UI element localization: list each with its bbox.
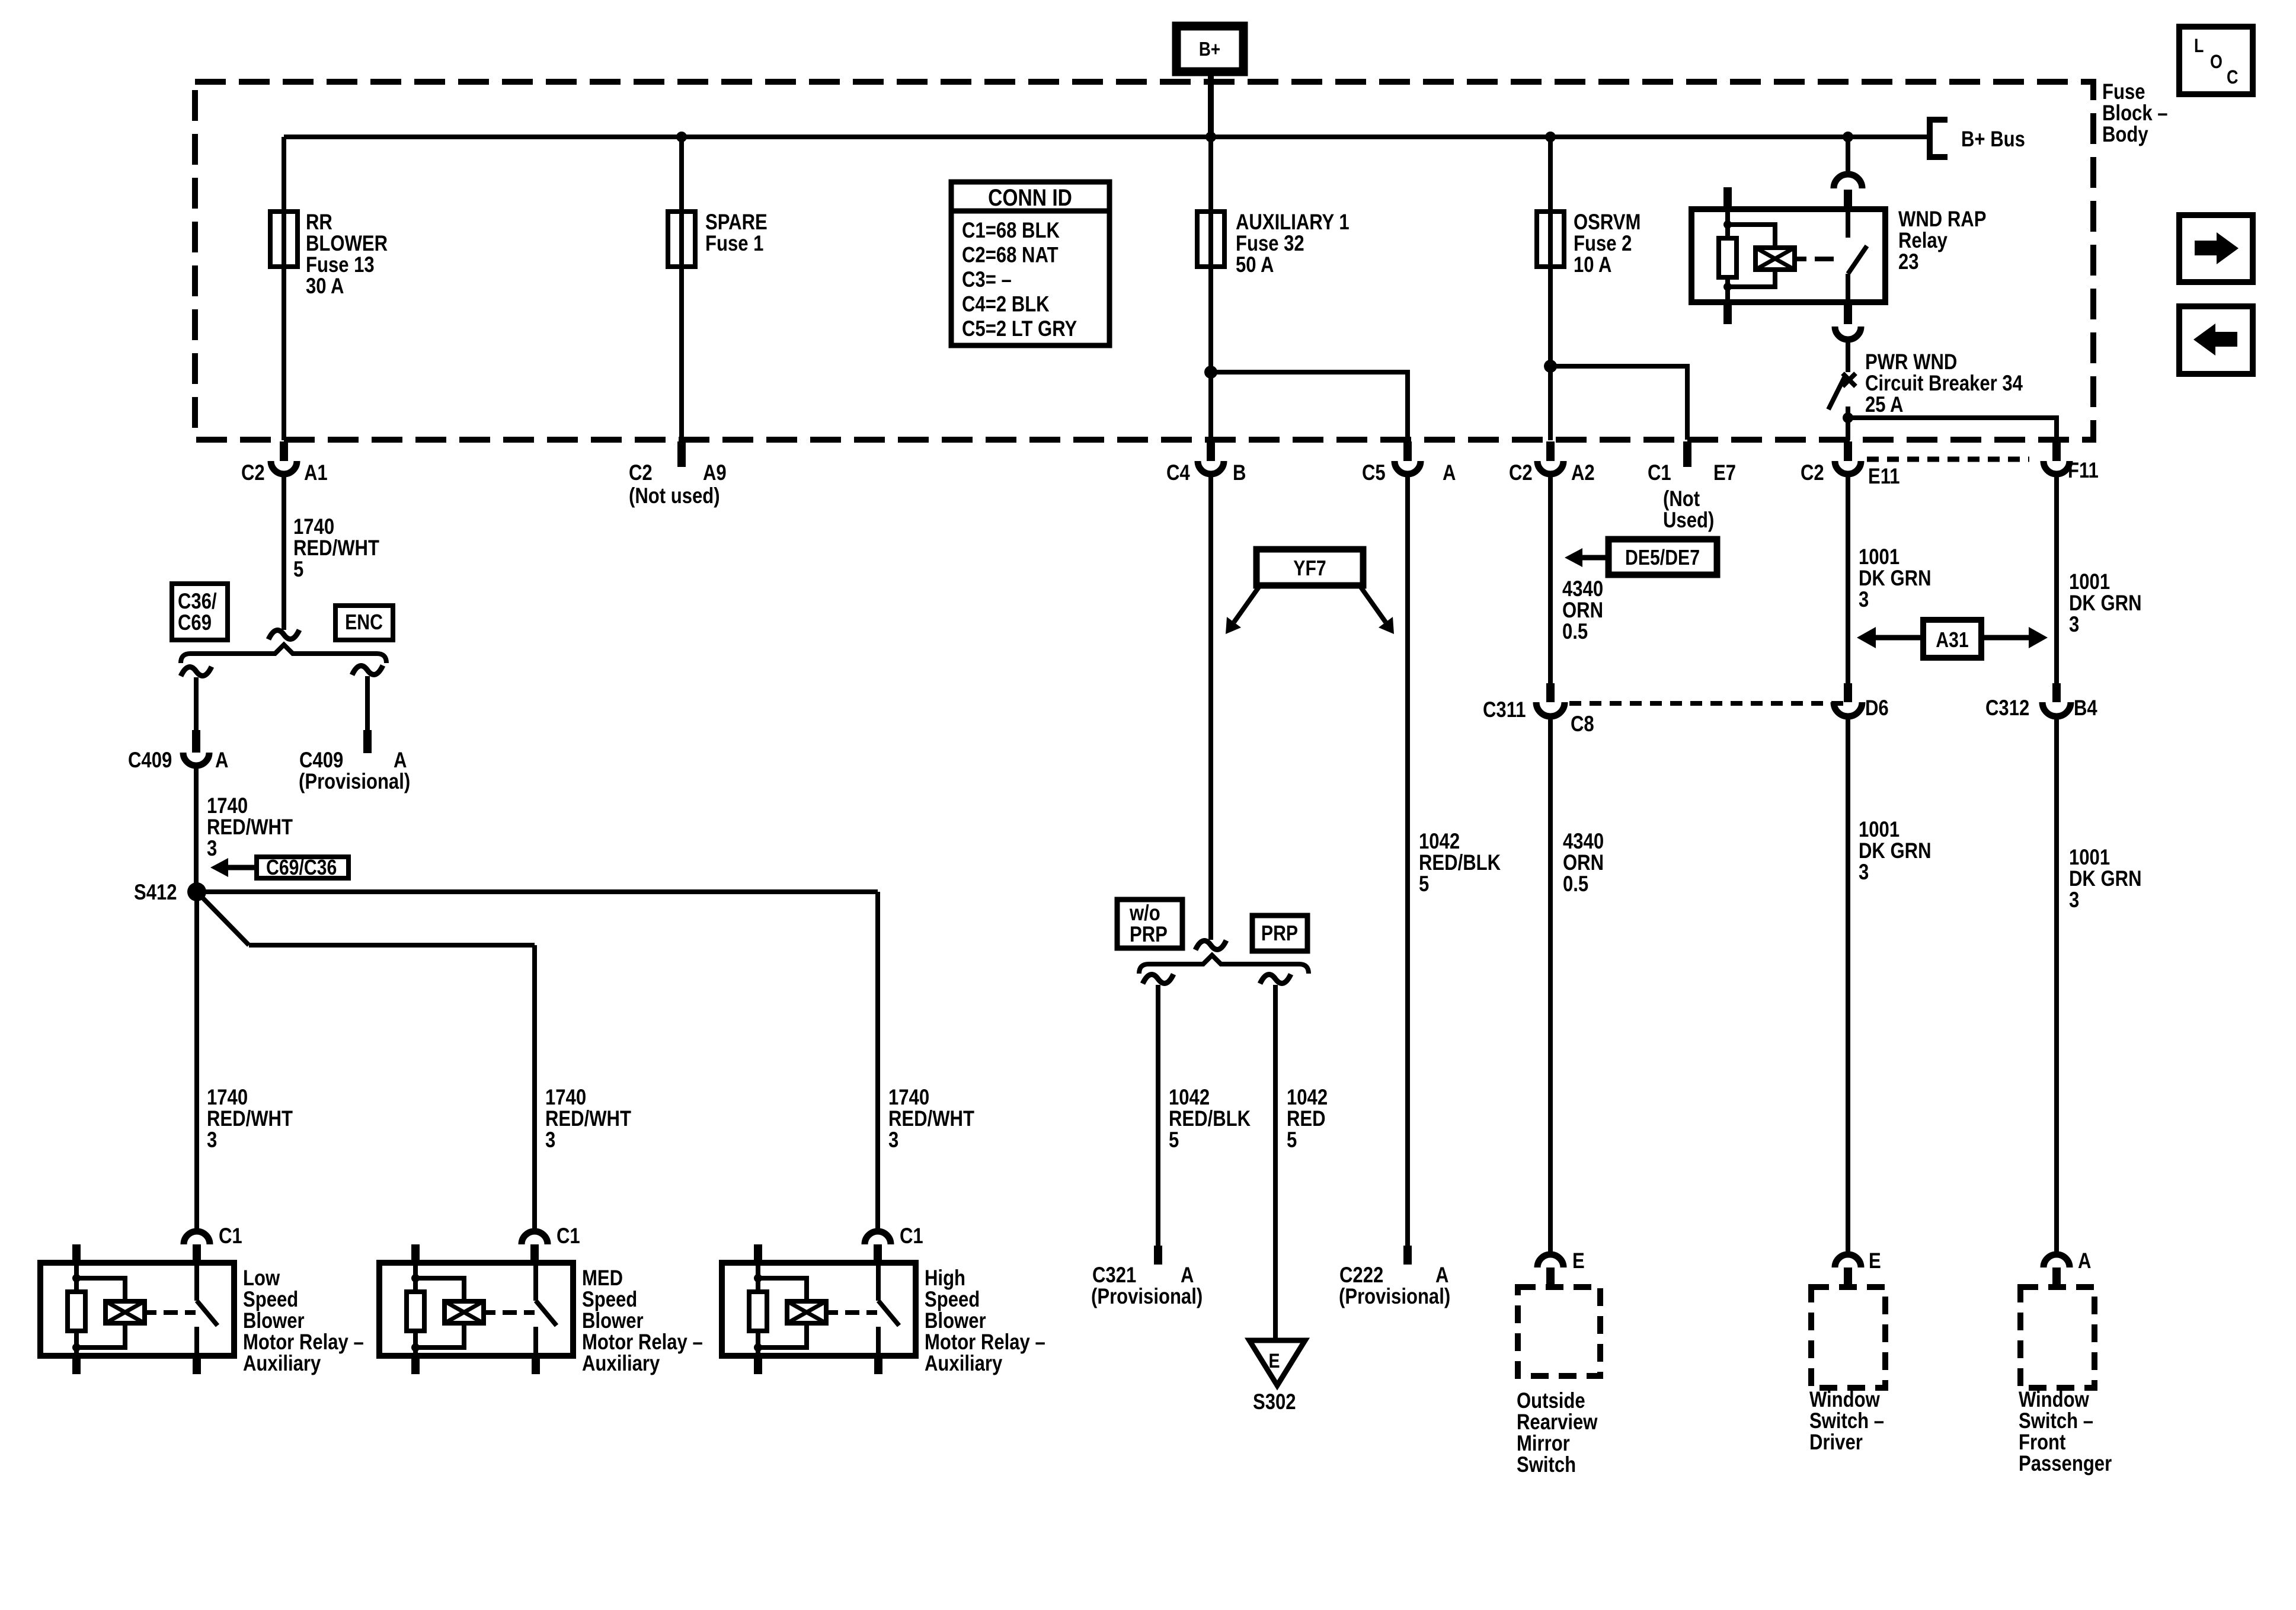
svg-text:OSRVM: OSRVM bbox=[1574, 210, 1641, 235]
label: 1001 DK GRN 3 (B4) bbox=[2069, 846, 2142, 913]
reference box YF7 with arrows bbox=[1226, 549, 1394, 634]
svg-text:B+: B+ bbox=[1199, 39, 1220, 60]
svg-text:23: 23 bbox=[1898, 250, 1919, 274]
connector C1 into Low relay bbox=[184, 1224, 242, 1263]
svg-text:DK GRN: DK GRN bbox=[1859, 566, 1932, 591]
svg-text:C3= –: C3= – bbox=[962, 268, 1012, 292]
label: PWR WND Circuit Breaker 34 25A bbox=[1865, 350, 2023, 417]
svg-text:ORN: ORN bbox=[1563, 851, 1604, 875]
wire C4-B down bbox=[1208, 474, 1213, 940]
label: 1001 DK GRN 3 (E11) bbox=[1859, 545, 1932, 612]
svg-text:L: L bbox=[2194, 36, 2204, 57]
connector A into passenger window switch bbox=[2044, 1249, 2091, 1287]
svg-text:C1: C1 bbox=[219, 1224, 242, 1249]
svg-text:C2: C2 bbox=[241, 461, 265, 485]
svg-text:C409: C409 bbox=[299, 748, 343, 773]
svg-text:1740: 1740 bbox=[888, 1086, 929, 1110]
label: C5 A bbox=[1362, 461, 1456, 485]
svg-text:25 A: 25 A bbox=[1865, 393, 1903, 417]
svg-text:F11: F11 bbox=[2068, 459, 2099, 483]
wire bus to Spare fuse bbox=[679, 137, 684, 440]
svg-text:Switch –: Switch – bbox=[2019, 1409, 2093, 1433]
svg-text:MED: MED bbox=[582, 1266, 623, 1291]
svg-text:Blower: Blower bbox=[925, 1309, 986, 1333]
svg-text:Passenger: Passenger bbox=[2019, 1452, 2112, 1476]
node: bus-WND-RAP junction bbox=[1843, 132, 1853, 142]
svg-text:A: A bbox=[2078, 1249, 2091, 1273]
svg-text:A1: A1 bbox=[304, 461, 328, 485]
svg-text:BLOWER: BLOWER bbox=[306, 232, 388, 256]
svg-text:E: E bbox=[1869, 1249, 1881, 1273]
svg-text:Blower: Blower bbox=[582, 1309, 644, 1333]
label: C222 A (Provisional) bbox=[1339, 1263, 1450, 1309]
svg-text:A9: A9 bbox=[703, 461, 727, 485]
label: C4 B bbox=[1166, 461, 1246, 485]
svg-text:YF7: YF7 bbox=[1293, 557, 1326, 581]
wire left drop to C409 bbox=[194, 677, 199, 730]
svg-text:3: 3 bbox=[1859, 860, 1869, 885]
reference box C69/C36 with arrow bbox=[210, 856, 348, 880]
wire Aux node to C4-B bbox=[1208, 372, 1213, 440]
connector C311 pin C8 bbox=[1536, 683, 1565, 716]
label: 1042 RED/BLK 5 (w/o PRP) bbox=[1169, 1086, 1251, 1153]
svg-text:Motor Relay –: Motor Relay – bbox=[925, 1330, 1045, 1355]
svg-text:Body: Body bbox=[2102, 123, 2148, 147]
label: C409 A (Provisional) bbox=[299, 748, 410, 794]
svg-text:E: E bbox=[1572, 1249, 1585, 1273]
wire bus to Auxiliary1 fuse bbox=[1208, 137, 1213, 372]
svg-text:Window: Window bbox=[1809, 1388, 1880, 1412]
svg-text:AUXILIARY 1: AUXILIARY 1 bbox=[1236, 210, 1350, 235]
label: C2 A9 (Not used) bbox=[629, 461, 727, 508]
label: 1740 RED/WHT 3 (low) bbox=[207, 1086, 293, 1153]
wire B+ to bus bbox=[1208, 72, 1214, 137]
svg-text:4340: 4340 bbox=[1562, 577, 1603, 601]
wire OSRVM node to A2 bbox=[1548, 366, 1553, 440]
svg-text:Low: Low bbox=[243, 1266, 280, 1291]
connector C5 pin A bbox=[1395, 441, 1421, 474]
fuse F32 Auxiliary 1 bbox=[1197, 212, 1224, 267]
node: breaker output junction bbox=[1843, 412, 1853, 423]
svg-text:(Provisional): (Provisional) bbox=[1339, 1285, 1450, 1309]
label: 4340 ORN 0.5 (lower) bbox=[1563, 830, 1604, 897]
wire E11 down (1001 DK GRN 3) bbox=[1846, 474, 1850, 683]
relay MED Speed Blower Motor Relay - Auxiliary bbox=[379, 1244, 573, 1374]
svg-text:Rearview: Rearview bbox=[1517, 1410, 1598, 1435]
label: Window Switch - Driver bbox=[1809, 1388, 1884, 1455]
svg-text:B: B bbox=[1233, 461, 1246, 485]
svg-text:C36/: C36/ bbox=[178, 590, 217, 614]
harness break above brace bbox=[268, 630, 299, 639]
svg-text:Fuse 2: Fuse 2 bbox=[1574, 232, 1632, 256]
connector C2 pin A9 (not used) bbox=[677, 441, 686, 467]
wire C409 to S412 (1740 RED/WHT 3) bbox=[194, 766, 199, 892]
harness break w/o-PRP drop bbox=[1143, 974, 1173, 984]
connector C2 pin A2 bbox=[1537, 441, 1563, 474]
node: OSRVM output junction bbox=[1544, 360, 1557, 373]
svg-text:Auxiliary: Auxiliary bbox=[925, 1352, 1002, 1376]
svg-text:RED/WHT: RED/WHT bbox=[888, 1107, 974, 1131]
wire C5-A down (1042 RED/BLK 5) bbox=[1405, 474, 1410, 1246]
svg-text:Outside: Outside bbox=[1517, 1389, 1585, 1413]
svg-text:O: O bbox=[2210, 52, 2223, 73]
svg-text:D6: D6 bbox=[1865, 696, 1889, 721]
svg-text:RED/WHT: RED/WHT bbox=[293, 536, 379, 561]
wire w/o-PRP drop (1042 RED/BLK 5) bbox=[1156, 985, 1160, 1246]
wire node to E11 bbox=[1846, 418, 1850, 440]
connector C1 pin E7 (not used) bbox=[1683, 441, 1691, 467]
wire B+ bus (horizontal) bbox=[284, 135, 1927, 139]
svg-text:DK GRN: DK GRN bbox=[2069, 867, 2142, 891]
connector C409 pin A (provisional) bbox=[363, 730, 372, 753]
label: B+ Bus bbox=[1961, 127, 2025, 152]
label: 1740 RED/WHT 5 bbox=[293, 515, 379, 582]
label: C312 B4 bbox=[1985, 696, 2097, 721]
svg-text:1740: 1740 bbox=[545, 1086, 586, 1110]
hyperlink box right-arrow bbox=[2179, 215, 2253, 282]
harness break PRP drop bbox=[1260, 974, 1291, 984]
svg-text:Auxiliary: Auxiliary bbox=[582, 1352, 660, 1376]
label: 1740 RED/WHT 3 (high) bbox=[888, 1086, 974, 1153]
svg-text:C409: C409 bbox=[128, 748, 172, 773]
svg-text:A2: A2 bbox=[1571, 461, 1595, 485]
svg-text:RED/BLK: RED/BLK bbox=[1419, 851, 1501, 875]
label: MED Speed Blower Motor Relay - Auxiliary bbox=[582, 1266, 703, 1376]
connector C312 pin B4 bbox=[2042, 683, 2071, 716]
wire right drop provisional bbox=[365, 676, 370, 730]
label: 1740 RED/WHT 3 (upper) bbox=[207, 794, 293, 861]
svg-text:Speed: Speed bbox=[243, 1288, 298, 1312]
label: 1740 RED/WHT 3 (med) bbox=[545, 1086, 631, 1153]
svg-text:1740: 1740 bbox=[207, 794, 248, 818]
connector C4 pin B bbox=[1198, 441, 1224, 474]
svg-text:B+ Bus: B+ Bus bbox=[1961, 127, 2025, 152]
connector C222 pin A (provisional) bbox=[1403, 1246, 1412, 1265]
wire drop to High relay bbox=[875, 892, 880, 1233]
harness break left drop bbox=[181, 667, 212, 676]
svg-text:PRP: PRP bbox=[1130, 923, 1168, 947]
svg-text:C69: C69 bbox=[178, 611, 212, 635]
svg-text:1740: 1740 bbox=[207, 1086, 248, 1110]
label: Window Switch - Front Passenger bbox=[2019, 1388, 2112, 1476]
svg-text:SPARE: SPARE bbox=[705, 210, 768, 235]
relay Low Speed Blower Motor Relay - Auxiliary bbox=[40, 1244, 234, 1374]
svg-text:Switch –: Switch – bbox=[1809, 1409, 1884, 1433]
svg-text:0.5: 0.5 bbox=[1562, 620, 1588, 644]
svg-text:3: 3 bbox=[1859, 588, 1869, 612]
svg-text:DK GRN: DK GRN bbox=[2069, 591, 2142, 616]
svg-text:C4: C4 bbox=[1166, 461, 1190, 485]
svg-text:E7: E7 bbox=[1713, 461, 1736, 485]
svg-text:Window: Window bbox=[2019, 1388, 2089, 1412]
svg-text:C69/C36: C69/C36 bbox=[266, 856, 337, 880]
svg-text:C312: C312 bbox=[1985, 696, 2029, 721]
svg-text:Blower: Blower bbox=[243, 1309, 305, 1333]
window switch driver (dashed box) bbox=[1811, 1287, 1885, 1388]
wire PRP drop (1042 RED 5) bbox=[1273, 985, 1278, 1340]
svg-text:Speed: Speed bbox=[925, 1288, 980, 1312]
svg-text:30 A: 30 A bbox=[306, 274, 344, 299]
label: Fuse Block - Body bbox=[2102, 80, 2168, 147]
connector E into driver window switch bbox=[1835, 1249, 1881, 1287]
svg-text:(Provisional): (Provisional) bbox=[1091, 1285, 1203, 1309]
svg-text:3: 3 bbox=[207, 837, 217, 861]
connector out of WND RAP relay bbox=[1835, 302, 1861, 340]
relay WND RAP 23 bbox=[1691, 187, 1885, 324]
svg-text:A: A bbox=[394, 748, 407, 773]
svg-text:S412: S412 bbox=[134, 881, 177, 905]
svg-text:C2: C2 bbox=[1509, 461, 1533, 485]
wire C8 down (4340 ORN 0.5) bbox=[1548, 716, 1553, 1254]
label: C2 A1 bbox=[241, 461, 328, 485]
relay High Speed Blower Motor Relay - Auxiliary bbox=[722, 1244, 916, 1374]
svg-text:C2: C2 bbox=[1801, 461, 1824, 485]
svg-text:C321: C321 bbox=[1092, 1263, 1136, 1288]
node: Aux output junction bbox=[1204, 366, 1217, 379]
reference box DE5/DE7 with arrow bbox=[1565, 539, 1717, 575]
svg-text:1042: 1042 bbox=[1287, 1086, 1328, 1110]
wire B4 down (1001 DK GRN 3) bbox=[2054, 716, 2059, 1254]
svg-text:5: 5 bbox=[293, 558, 303, 582]
svg-text:C1: C1 bbox=[900, 1224, 923, 1249]
ground S302 bbox=[1249, 1340, 1305, 1414]
wire A2 down (4340 ORN 0.5) bbox=[1548, 474, 1553, 683]
svg-text:ENC: ENC bbox=[345, 611, 383, 635]
label: 4340 ORN 0.5 (upper) bbox=[1562, 577, 1603, 644]
svg-text:1001: 1001 bbox=[1859, 545, 1900, 569]
connector C2 body (dotted link E11-F11) bbox=[1867, 457, 2029, 462]
svg-text:(Not used): (Not used) bbox=[629, 484, 720, 508]
svg-text:E: E bbox=[1268, 1350, 1280, 1372]
wire S412 diagonal to med branch bbox=[197, 892, 535, 945]
wire branch to E7 bbox=[1550, 366, 1687, 440]
svg-text:C1: C1 bbox=[557, 1224, 580, 1249]
svg-text:5: 5 bbox=[1419, 872, 1429, 897]
label: Outside Rearview Mirror Switch bbox=[1517, 1389, 1598, 1477]
svg-text:3: 3 bbox=[2069, 613, 2079, 637]
svg-text:C222: C222 bbox=[1339, 1263, 1383, 1288]
reference box A31 with arrows bbox=[1857, 620, 2048, 658]
wire bus to RR Blower fuse bbox=[282, 137, 286, 440]
label: Spare Fuse 1 bbox=[705, 210, 768, 256]
svg-text:A: A bbox=[1435, 1263, 1448, 1288]
svg-text:3: 3 bbox=[207, 1128, 217, 1153]
wire branch to F11 bbox=[1848, 418, 2057, 440]
svg-text:C5: C5 bbox=[1362, 461, 1386, 485]
svg-text:RED/BLK: RED/BLK bbox=[1169, 1107, 1251, 1131]
wire A1 down (1740 RED/WHT 5) bbox=[282, 474, 286, 630]
node: bus-OSRVM junction bbox=[1545, 132, 1556, 142]
label: Auxiliary 1 Fuse 32 50A bbox=[1236, 210, 1350, 277]
svg-text:E11: E11 bbox=[1868, 465, 1900, 489]
wire drop to Med relay bbox=[532, 945, 537, 1233]
svg-text:4340: 4340 bbox=[1563, 830, 1604, 854]
svg-text:Fuse 13: Fuse 13 bbox=[306, 253, 375, 277]
wire branch to C5-A bbox=[1211, 372, 1408, 440]
hyperlink box left-arrow bbox=[2179, 306, 2253, 374]
label: OSRVM Fuse 2 10A bbox=[1574, 210, 1641, 277]
svg-text:Driver: Driver bbox=[1809, 1430, 1863, 1455]
svg-text:RED: RED bbox=[1287, 1107, 1326, 1131]
svg-text:w/o: w/o bbox=[1129, 901, 1160, 926]
svg-text:1001: 1001 bbox=[2069, 846, 2110, 870]
svg-text:Motor Relay –: Motor Relay – bbox=[582, 1330, 703, 1355]
svg-text:1042: 1042 bbox=[1419, 830, 1460, 854]
circuit breaker 34 bbox=[1828, 373, 1856, 409]
connector E into mirror switch bbox=[1537, 1249, 1585, 1287]
svg-text:Auxiliary: Auxiliary bbox=[243, 1352, 321, 1376]
svg-text:RED/WHT: RED/WHT bbox=[207, 815, 293, 840]
svg-text:5: 5 bbox=[1169, 1128, 1179, 1153]
svg-text:1001: 1001 bbox=[1859, 818, 1900, 842]
svg-text:C: C bbox=[2227, 67, 2238, 88]
wire S412 to high-relay drop bbox=[197, 889, 878, 894]
svg-text:Switch: Switch bbox=[1517, 1453, 1576, 1477]
svg-text:A: A bbox=[215, 748, 228, 773]
B+ terminal box bbox=[1176, 26, 1243, 72]
label: C2 A2 bbox=[1509, 461, 1595, 485]
svg-text:(Provisional): (Provisional) bbox=[299, 770, 410, 794]
wire bus to OSRVM fuse bbox=[1548, 137, 1553, 366]
svg-text:Fuse: Fuse bbox=[2102, 80, 2145, 104]
wire S412 down to Low relay bbox=[194, 892, 199, 1233]
B+ bus bracket terminator bbox=[1930, 120, 1948, 157]
label: C321 A (Provisional) bbox=[1091, 1263, 1203, 1309]
wire D6 down (1001 DK GRN 3) bbox=[1846, 716, 1850, 1254]
wire bus to relay connector bbox=[1846, 137, 1850, 177]
connector box ENC bbox=[335, 606, 393, 640]
svg-text:RED/WHT: RED/WHT bbox=[545, 1107, 631, 1131]
connector C1 into High relay bbox=[865, 1224, 923, 1263]
svg-text:Fuse 32: Fuse 32 bbox=[1236, 232, 1304, 256]
svg-text:Relay: Relay bbox=[1898, 229, 1948, 253]
svg-text:Speed: Speed bbox=[582, 1288, 637, 1312]
label: F11 bbox=[2068, 459, 2099, 483]
svg-text:DK GRN: DK GRN bbox=[1859, 839, 1932, 863]
brace split C36/C69-ENC bbox=[181, 645, 386, 663]
svg-text:C8: C8 bbox=[1571, 712, 1594, 737]
connector C2 pin F11 bbox=[2044, 441, 2070, 474]
svg-text:PRP: PRP bbox=[1261, 922, 1298, 946]
svg-text:RED/WHT: RED/WHT bbox=[207, 1107, 293, 1131]
label: 1042 RED 5 bbox=[1287, 1086, 1328, 1153]
svg-text:CONN ID: CONN ID bbox=[988, 184, 1072, 210]
svg-text:Used): Used) bbox=[1663, 508, 1714, 533]
fuse block - body (dashed outline) bbox=[195, 82, 2093, 440]
label: D6 bbox=[1865, 696, 1889, 721]
svg-text:C1: C1 bbox=[1648, 461, 1671, 485]
node S412 bbox=[134, 881, 206, 905]
svg-text:C4=2 BLK: C4=2 BLK bbox=[962, 292, 1050, 316]
fuse F2 OSRVM bbox=[1537, 212, 1564, 267]
label: WND RAP Relay 23 bbox=[1898, 207, 1986, 274]
svg-text:3: 3 bbox=[2069, 888, 2079, 913]
svg-text:C1=68 BLK: C1=68 BLK bbox=[962, 219, 1060, 243]
connector C321 pin A (provisional) bbox=[1154, 1246, 1162, 1265]
svg-text:Front: Front bbox=[2019, 1430, 2065, 1455]
svg-text:C2: C2 bbox=[629, 461, 653, 485]
connector C2 pin E11 bbox=[1835, 441, 1861, 474]
label: High Speed Blower Motor Relay - Auxiliary bbox=[925, 1266, 1045, 1376]
label: C2 E11 bbox=[1801, 461, 1900, 489]
wire breaker to node bbox=[1846, 406, 1850, 418]
node: bus-B+ junction bbox=[1205, 132, 1216, 142]
svg-text:PWR WND: PWR WND bbox=[1865, 350, 1957, 375]
connector box C36/C69 bbox=[172, 584, 228, 640]
connector C311 body (dashed to D6) bbox=[1569, 701, 1844, 706]
fuse F1 Spare bbox=[668, 212, 695, 267]
label: C311 C8 bbox=[1483, 698, 1594, 737]
label: 1001 DK GRN 3 (F11) bbox=[2069, 570, 2142, 637]
brace split PRP options bbox=[1139, 955, 1309, 974]
svg-text:WND RAP: WND RAP bbox=[1898, 207, 1986, 232]
wire relay to circuit breaker bbox=[1846, 340, 1850, 372]
harness break right drop bbox=[352, 665, 383, 675]
svg-text:Mirror: Mirror bbox=[1517, 1432, 1570, 1456]
svg-text:A31: A31 bbox=[1936, 629, 1968, 652]
label: C409 A bbox=[128, 748, 228, 773]
svg-text:Block –: Block – bbox=[2102, 101, 2168, 126]
fuse F13 RR Blower bbox=[270, 212, 298, 267]
label: Low Speed Blower Motor Relay - Auxiliary bbox=[243, 1266, 364, 1376]
wire F11 down (1001 DK GRN 3) bbox=[2054, 474, 2059, 683]
svg-text:1740: 1740 bbox=[293, 515, 334, 539]
svg-text:(Not: (Not bbox=[1663, 487, 1700, 511]
node: bus-SPARE junction bbox=[676, 132, 687, 142]
svg-text:Fuse 1: Fuse 1 bbox=[705, 232, 763, 256]
LOC reference box bbox=[2179, 27, 2253, 94]
connector C311 pin D6 bbox=[1834, 683, 1862, 716]
svg-text:5: 5 bbox=[1287, 1128, 1297, 1153]
label: 1001 DK GRN 3 (D6) bbox=[1859, 818, 1932, 885]
label: C1 E7 (Not Used) bbox=[1648, 461, 1736, 533]
svg-text:ORN: ORN bbox=[1562, 598, 1603, 623]
svg-text:0.5: 0.5 bbox=[1563, 872, 1588, 897]
svg-text:3: 3 bbox=[888, 1128, 898, 1153]
svg-text:Motor Relay –: Motor Relay – bbox=[243, 1330, 364, 1355]
svg-text:Circuit Breaker 34: Circuit Breaker 34 bbox=[1865, 372, 2023, 396]
label: 1042 RED/BLK 5 (C5 wire) bbox=[1419, 830, 1501, 897]
svg-text:10 A: 10 A bbox=[1574, 253, 1611, 277]
connector C1 into Med relay bbox=[522, 1224, 580, 1263]
svg-text:3: 3 bbox=[545, 1128, 555, 1153]
CONN ID table bbox=[951, 182, 1109, 345]
svg-text:A: A bbox=[1181, 1263, 1194, 1288]
svg-text:S302: S302 bbox=[1253, 1390, 1296, 1414]
outside rearview mirror switch (dashed box) bbox=[1518, 1287, 1600, 1376]
option box w/o PRP bbox=[1117, 900, 1182, 948]
svg-text:C2=68 NAT: C2=68 NAT bbox=[962, 243, 1059, 267]
svg-text:High: High bbox=[925, 1266, 965, 1291]
harness break above PRP brace bbox=[1195, 940, 1226, 950]
svg-text:1001: 1001 bbox=[2069, 570, 2110, 594]
option box PRP bbox=[1252, 916, 1307, 951]
svg-text:RR: RR bbox=[306, 210, 332, 235]
svg-text:1042: 1042 bbox=[1169, 1086, 1210, 1110]
connector C2 pin A1 bbox=[271, 441, 297, 474]
svg-text:A: A bbox=[1443, 461, 1456, 485]
svg-text:B4: B4 bbox=[2074, 696, 2097, 721]
svg-text:C5=2 LT GRY: C5=2 LT GRY bbox=[962, 317, 1077, 341]
svg-text:50 A: 50 A bbox=[1236, 253, 1274, 277]
window switch front passenger (dashed box) bbox=[2020, 1287, 2094, 1388]
label: RR Blower Fuse 13 30A bbox=[306, 210, 388, 299]
svg-text:DE5/DE7: DE5/DE7 bbox=[1625, 546, 1700, 570]
svg-text:C311: C311 bbox=[1483, 698, 1526, 722]
connector into WND RAP relay bbox=[1834, 174, 1862, 209]
connector C409 pin A bbox=[183, 730, 209, 766]
